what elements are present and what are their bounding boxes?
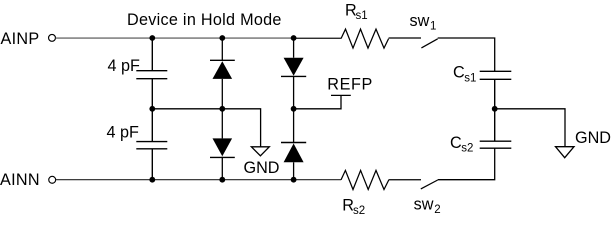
wire AINP rail (55, 37, 294, 39)
diode D4 lower-right (281, 109, 306, 180)
junction D3 mid (291, 106, 297, 112)
junction Cs1-Cs2 (492, 106, 498, 112)
svg-text:REFP: REFP (327, 75, 373, 93)
svg-text:C: C (450, 134, 462, 152)
junction D4 bottom (291, 177, 297, 183)
resistor Rs2 (341, 170, 389, 189)
svg-text:2: 2 (434, 204, 440, 216)
capacitor C1 top (136, 38, 167, 109)
svg-text:s2: s2 (461, 143, 473, 155)
junction cap top (149, 35, 155, 41)
diode D1 upper-left (210, 38, 235, 109)
switch sw1 (421, 39, 437, 48)
junction cap mid (149, 106, 155, 112)
svg-text:sw: sw (410, 12, 430, 30)
svg-text:1: 1 (430, 20, 436, 32)
wire Rs2 to sw2 (389, 179, 421, 181)
svg-text:s2: s2 (353, 205, 365, 217)
ground GND middle (251, 147, 269, 156)
junction D1 mid (219, 106, 225, 112)
wire to right ground (495, 109, 565, 147)
terminal AINN (49, 176, 56, 183)
wire Cs2 to sw2 (438, 148, 495, 180)
wire middle rail left (152, 109, 260, 147)
capacitor Cs1 (480, 71, 512, 109)
capacitor C2 bottom (136, 109, 167, 180)
switch sw2 (421, 180, 438, 189)
svg-text:sw: sw (414, 195, 434, 213)
terminal AINP (49, 34, 56, 41)
svg-text:Device in Hold Mode: Device in Hold Mode (127, 11, 282, 29)
svg-text:GND: GND (575, 129, 611, 147)
svg-text:4 pF: 4 pF (108, 57, 141, 75)
junction cap bottom (149, 177, 155, 183)
capacitor Cs2 (480, 109, 512, 148)
junction D3 top (291, 35, 297, 41)
svg-text:s1: s1 (464, 72, 476, 84)
diode D2 lower-left (210, 109, 235, 180)
svg-text:AINP: AINP (1, 30, 40, 48)
resistor Rs1 (341, 29, 389, 48)
junction D2 bottom (219, 177, 225, 183)
junction D1 top (219, 35, 225, 41)
wire REFP connection (331, 94, 351, 96)
wire sw1 to Cs1 (438, 38, 495, 71)
ground GND right (556, 147, 575, 158)
diode D3 upper-right (281, 38, 306, 109)
wire Rs1 to sw1 (389, 37, 421, 39)
svg-text:GND: GND (244, 159, 280, 177)
wire AINN rail (56, 179, 341, 181)
svg-text:C: C (453, 64, 465, 82)
svg-text:4 pF: 4 pF (107, 124, 140, 142)
svg-text:s1: s1 (356, 10, 368, 22)
svg-text:AINN: AINN (0, 171, 40, 189)
